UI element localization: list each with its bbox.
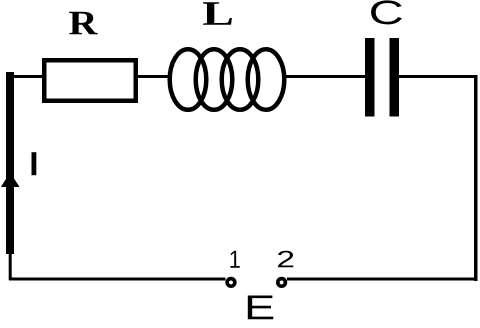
capacitor C right plate (390, 38, 400, 117)
resistor R box (44, 60, 136, 101)
wire: inductor to capacitor (284, 75, 365, 78)
label E (248, 296, 274, 320)
inductor L coil loop 1 (170, 49, 207, 110)
inductor L coil loop 4 (248, 49, 285, 110)
label C (371, 0, 402, 24)
wire: bar to resistor (13, 75, 43, 78)
inductor L coil loop 3 (222, 49, 259, 110)
label L (203, 2, 232, 25)
wire: left thick vertical bar (6, 72, 14, 254)
capacitor C left plate (365, 38, 375, 117)
switch terminal circle 1 (227, 279, 235, 287)
wire: bottom left segment (9, 278, 226, 281)
wire: resistor to inductor (136, 75, 170, 78)
wire: bottom right segment (287, 278, 478, 281)
label R (69, 12, 98, 35)
wire: thin continuation below thick bar (9, 250, 12, 280)
current arrow on left wire (1, 173, 20, 188)
wire: capacitor to right edge (399, 75, 478, 78)
wire: right vertical (474, 75, 478, 281)
label 1 (230, 251, 239, 268)
label I (32, 152, 37, 175)
inductor L coil loop 2 (196, 49, 233, 110)
switch terminal circle 2 (278, 279, 286, 287)
label 2 (278, 251, 293, 268)
